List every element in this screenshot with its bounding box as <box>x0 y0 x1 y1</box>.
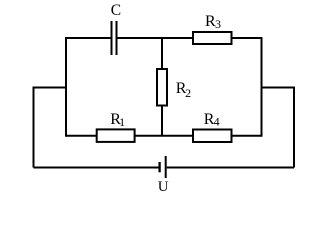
svg-text:C: C <box>111 2 121 19</box>
svg-text:R1: R1 <box>110 111 125 129</box>
svg-text:R3: R3 <box>205 13 221 31</box>
svg-text:U: U <box>158 179 169 195</box>
svg-text:R4: R4 <box>204 111 220 129</box>
svg-text:R2: R2 <box>176 80 191 100</box>
